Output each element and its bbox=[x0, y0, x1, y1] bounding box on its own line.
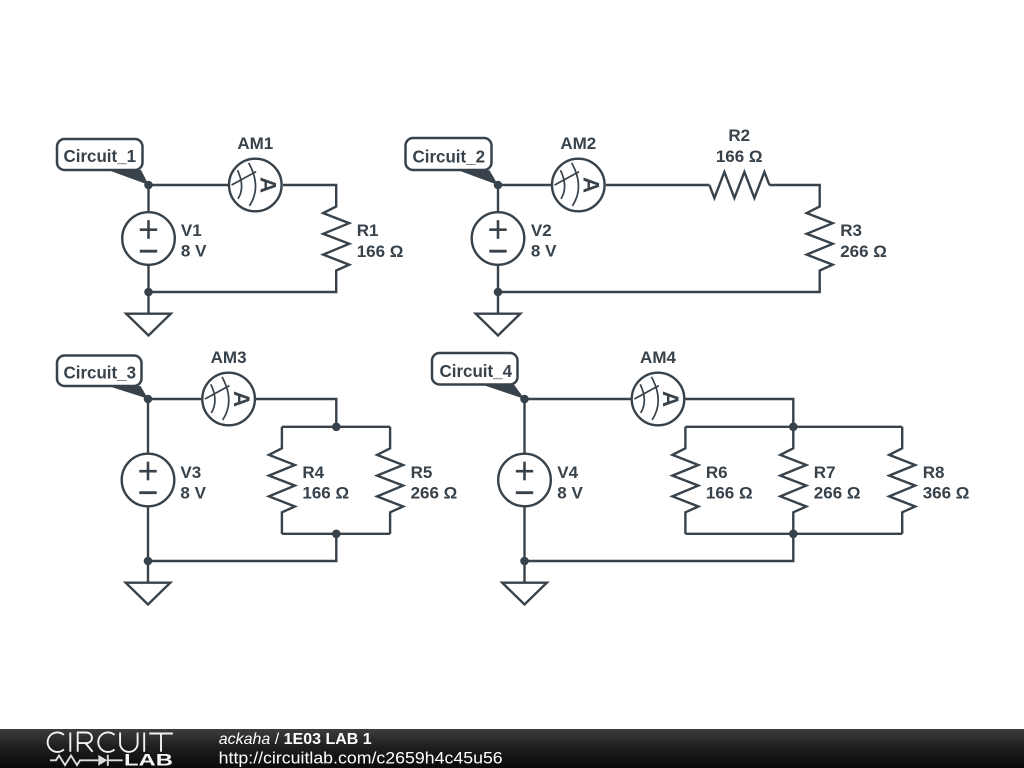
node junction bottom circuit3 bbox=[144, 557, 153, 566]
svg-text:8 V: 8 V bbox=[181, 242, 207, 261]
svg-text:166 Ω: 166 Ω bbox=[357, 242, 404, 261]
svg-text:266 Ω: 266 Ω bbox=[411, 484, 458, 503]
wire V4 bottom to ground node bbox=[523, 507, 525, 562]
svg-text:R5: R5 bbox=[411, 463, 433, 482]
svg-text:R6: R6 bbox=[706, 463, 728, 482]
svg-text:Circuit_2: Circuit_2 bbox=[413, 146, 486, 166]
wire bottom rail R6 R7 R8 bbox=[685, 533, 902, 535]
node junction parallel top circuit3 bbox=[332, 423, 341, 432]
svg-text:V3: V3 bbox=[180, 463, 201, 482]
svg-text:AM1: AM1 bbox=[237, 134, 273, 153]
wire top rail R4 R5 bbox=[282, 426, 390, 428]
svg-text:366 Ω: 366 Ω bbox=[923, 484, 970, 503]
wire node2 to V2 top bbox=[497, 185, 499, 212]
footer background bbox=[0, 729, 1024, 768]
wire R8 top stub bbox=[901, 427, 903, 449]
wire R6 top stub bbox=[684, 427, 686, 449]
svg-text:V2: V2 bbox=[531, 221, 552, 240]
wire node3 to V3 top bbox=[147, 399, 149, 454]
svg-text:V4: V4 bbox=[557, 463, 578, 482]
wire V2 bottom to ground node bbox=[497, 265, 499, 292]
resistor R5 bbox=[377, 448, 403, 512]
ground circuit3 bbox=[126, 561, 171, 605]
svg-text:R3: R3 bbox=[840, 221, 862, 240]
resistor R6 bbox=[672, 448, 698, 512]
ammeter AM1 bbox=[229, 159, 282, 212]
resistor R8 bbox=[889, 448, 915, 512]
node junction top circuit3 bbox=[144, 395, 153, 404]
wire R7 top stub bbox=[792, 427, 794, 449]
logo letter T bbox=[149, 734, 173, 752]
node junction top circuit1 bbox=[144, 181, 153, 190]
svg-text:8 V: 8 V bbox=[531, 242, 557, 261]
node junction top circuit4 bbox=[520, 395, 529, 404]
wire AM3 to corner into parallel top rail bbox=[256, 399, 336, 427]
svg-text:R4: R4 bbox=[302, 463, 324, 482]
logo CIRCUIT letters bbox=[48, 732, 173, 752]
wire R3 bottom to bottom rail bbox=[498, 270, 820, 292]
logo letter R bbox=[78, 733, 93, 752]
label flag Circuit_3 bbox=[57, 356, 148, 399]
svg-text:AM4: AM4 bbox=[640, 348, 676, 367]
logo resistor diode glyph bbox=[50, 755, 123, 766]
wire AM4 to corner into parallel top rail bbox=[685, 399, 793, 427]
node junction bottom circuit1 bbox=[144, 288, 153, 297]
resistor R3 bbox=[807, 207, 833, 271]
wire AM1 to corner to R1 top bbox=[283, 185, 336, 207]
wire node1 to V1 top bbox=[147, 185, 149, 212]
ammeter AM4 bbox=[632, 373, 685, 426]
wire V3 bottom to ground node bbox=[147, 507, 149, 562]
wire R2 to corner to R3 top bbox=[769, 185, 819, 207]
resistor R2 bbox=[709, 172, 769, 198]
voltage source V1 bbox=[122, 212, 175, 265]
node junction bottom circuit2 bbox=[494, 288, 503, 297]
node junction parallel bottom circuit3 bbox=[332, 530, 341, 539]
ground circuit4 bbox=[502, 561, 547, 605]
svg-text:166 Ω: 166 Ω bbox=[706, 484, 753, 503]
node junction top circuit2 bbox=[494, 181, 503, 190]
ammeter AM2 bbox=[552, 159, 605, 212]
wire AM2 to R2 bbox=[606, 184, 710, 186]
svg-text:R1: R1 bbox=[357, 221, 379, 240]
svg-text:AM2: AM2 bbox=[560, 134, 596, 153]
wire node4 to V4 top bbox=[523, 399, 525, 454]
wire node4 to AM4 bbox=[525, 398, 631, 400]
svg-text:266 Ω: 266 Ω bbox=[814, 484, 861, 503]
node junction bottom circuit4 bbox=[520, 557, 529, 566]
logo letter C1 bbox=[48, 732, 64, 752]
ground circuit1 bbox=[126, 292, 171, 336]
svg-text:R7: R7 bbox=[814, 463, 836, 482]
ammeter AM3 bbox=[202, 373, 255, 426]
svg-text:8 V: 8 V bbox=[557, 483, 583, 502]
voltage source V4 bbox=[498, 454, 551, 507]
logo letter U bbox=[120, 733, 138, 752]
svg-text:http://circuitlab.com/c2659h4c: http://circuitlab.com/c2659h4c45u56 bbox=[219, 750, 503, 768]
label flag Circuit_1 bbox=[57, 139, 149, 185]
label flag Circuit_4 bbox=[432, 353, 525, 399]
svg-text:V1: V1 bbox=[181, 221, 202, 240]
wire R4 top stub bbox=[281, 427, 283, 449]
svg-text:Circuit_3: Circuit_3 bbox=[64, 362, 137, 382]
logo letter C2 bbox=[98, 732, 114, 752]
wire parallel bottom to ground rail circuit4 bbox=[525, 534, 794, 561]
svg-text:ackaha / 1E03 LAB 1: ackaha / 1E03 LAB 1 bbox=[219, 731, 372, 748]
svg-text:166 Ω: 166 Ω bbox=[302, 484, 349, 503]
wire node3 to AM3 bbox=[148, 398, 201, 400]
wire V1 bottom to ground node bbox=[147, 265, 149, 292]
node junction parallel bottom circuit4 bbox=[789, 530, 798, 539]
wire top rail R6 R7 R8 bbox=[685, 426, 902, 428]
wire R5 top stub bbox=[389, 427, 391, 449]
wire R4 bottom stub bbox=[281, 511, 283, 533]
svg-text:166 Ω: 166 Ω bbox=[716, 147, 763, 166]
resistor R4 bbox=[269, 448, 295, 512]
logo letter I2 bbox=[143, 733, 145, 752]
wire parallel bottom to ground rail bbox=[148, 534, 336, 561]
voltage source V2 bbox=[472, 212, 525, 265]
logo letter I1 bbox=[69, 733, 71, 752]
svg-text:R2: R2 bbox=[728, 126, 750, 145]
svg-text:Circuit_1: Circuit_1 bbox=[64, 146, 137, 166]
wire R8 bottom stub bbox=[901, 511, 903, 533]
wire R6 bottom stub bbox=[684, 511, 686, 533]
label flag Circuit_2 bbox=[406, 138, 499, 185]
logo diode triangle bbox=[98, 755, 107, 766]
svg-text:8 V: 8 V bbox=[180, 483, 206, 502]
voltage source V3 bbox=[122, 454, 175, 507]
svg-text:266 Ω: 266 Ω bbox=[840, 242, 887, 261]
wire R5 bottom stub bbox=[389, 511, 391, 533]
wire node2 to AM2 bbox=[498, 184, 551, 186]
wire bottom rail R4 R5 bbox=[282, 533, 390, 535]
resistor R7 bbox=[780, 448, 806, 512]
svg-text:Circuit_4: Circuit_4 bbox=[440, 361, 513, 381]
wire node1 to AM1 bbox=[149, 184, 229, 186]
svg-text:AM3: AM3 bbox=[211, 348, 247, 367]
ground circuit2 bbox=[476, 292, 521, 336]
wire R7 bottom stub bbox=[792, 511, 794, 533]
wire R1 bottom to bottom rail bbox=[149, 270, 337, 292]
svg-text:R8: R8 bbox=[923, 463, 945, 482]
svg-text:LAB: LAB bbox=[124, 751, 173, 768]
node junction parallel top circuit4 bbox=[789, 423, 798, 432]
resistor R1 bbox=[323, 207, 349, 271]
